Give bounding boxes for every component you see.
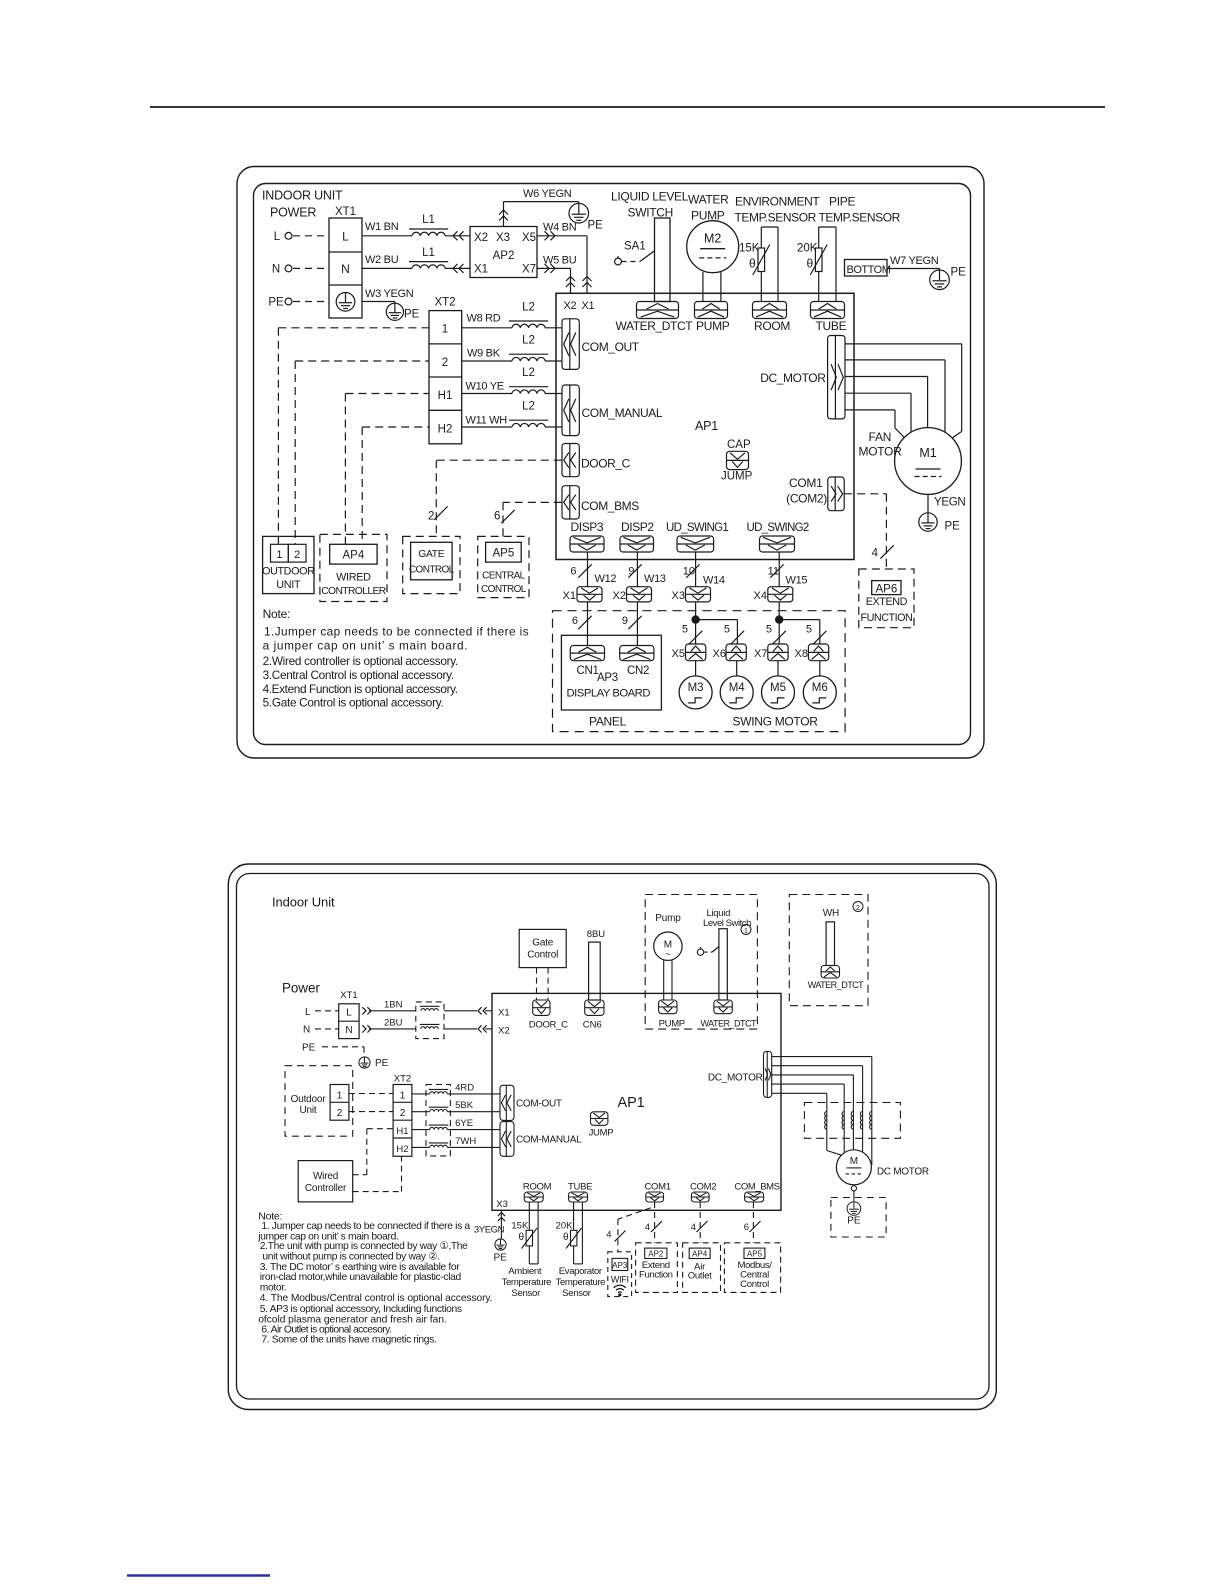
svg-text:PUMP: PUMP: [696, 319, 730, 333]
svg-text:M2: M2: [704, 232, 721, 246]
svg-text:Power: Power: [282, 981, 320, 996]
tick 9 W13: [628, 564, 666, 585]
footer blue line: [127, 1574, 270, 1577]
label DC_MOTOR: [760, 371, 826, 385]
connector X5: [672, 644, 706, 661]
wire M1 to PE: [927, 494, 929, 512]
dashed wire COM_BMS to AP5: [752, 1202, 754, 1243]
outdoor unit box: [262, 536, 315, 593]
wire W1 XT1.L to AP2.X2: [362, 231, 470, 240]
evaporator sensor probe: [574, 1202, 583, 1264]
dc motor wire 3: [772, 1075, 854, 1150]
svg-text:~: ~: [665, 950, 671, 961]
svg-text:DC MOTOR: DC MOTOR: [877, 1167, 929, 1178]
label WATER_DTCT bottom: [701, 1018, 757, 1028]
svg-text:X2: X2: [474, 232, 488, 244]
earth symbol PE near XT1: [386, 303, 419, 320]
svg-text:H2: H2: [396, 1144, 408, 1155]
svg-text:Sensor: Sensor: [511, 1288, 541, 1299]
svg-text:Function: Function: [639, 1269, 673, 1280]
bottom diagram outer border frame: [228, 864, 996, 1410]
tick 5 b: [724, 624, 744, 645]
wire DISP2 to X2: [636, 552, 638, 587]
svg-text:AP3: AP3: [597, 672, 618, 684]
svg-text:WATER_DTCT: WATER_DTCT: [616, 319, 694, 333]
label Liquid Level Switch: [703, 908, 751, 929]
label WH: [823, 908, 839, 919]
dashed wire outdoor 1 to XT2.1: [349, 1093, 393, 1095]
svg-text:Ambient: Ambient: [508, 1266, 542, 1277]
page top rule: [150, 106, 1105, 108]
dashed wire COM1 to AP2: [654, 1202, 656, 1243]
circled 1: [741, 925, 751, 935]
connector WATER_DTCT bottom: [714, 1000, 732, 1014]
svg-text:W8 RD: W8 RD: [467, 313, 501, 325]
svg-text:1: 1: [400, 1090, 406, 1101]
svg-text:W4 BN: W4 BN: [543, 222, 577, 234]
label Power: [282, 981, 320, 996]
svg-text:M: M: [850, 1156, 858, 1167]
svg-text:OUTDOOR: OUTDOOR: [262, 566, 315, 578]
wire branch to X8: [779, 620, 820, 644]
svg-text:W6 YEGN: W6 YEGN: [523, 188, 572, 200]
terminal block XT1: [329, 206, 362, 318]
thermistor 15K: [739, 243, 770, 276]
wire W7 BOTTOM to PE: [887, 269, 940, 271]
svg-text:WH: WH: [823, 908, 839, 919]
svg-text:COM_BMS: COM_BMS: [734, 1181, 779, 1192]
label W2 BU: [365, 254, 399, 266]
panel display board box: [561, 635, 661, 710]
room sensor probe: [761, 227, 778, 302]
svg-text:SWING MOTOR: SWING MOTOR: [733, 715, 819, 729]
svg-text:Controller: Controller: [305, 1183, 347, 1194]
wire W4 AP2.X5 to AP1.X1: [537, 231, 592, 293]
terminal block XT2: [429, 297, 462, 444]
dc motor wire 2: [772, 1066, 863, 1152]
svg-text:2.The unit with pump is connec: 2.The unit with pump is connected by way…: [260, 1241, 468, 1252]
title Indoor Unit: [272, 895, 335, 910]
inductor L1 (line L): [409, 214, 448, 236]
tick 9 panel: [622, 615, 642, 629]
wire 7WH: [412, 1146, 500, 1148]
earth symbol PE fan motor: [919, 513, 960, 533]
wires pump to PUMP connector: [664, 960, 672, 1001]
labels CN1 AP3 CN2: [577, 665, 650, 684]
svg-text:X8: X8: [795, 648, 808, 660]
label 3YEGN: [474, 1225, 505, 1236]
svg-text:a jumper cap on unit’ s main b: a jumper cap on unit’ s main board.: [263, 638, 469, 652]
svg-text:PIPE: PIPE: [829, 195, 855, 209]
svg-text:H2: H2: [438, 424, 453, 436]
svg-text:X2: X2: [613, 590, 626, 602]
liquid level switch SA1 symbol: [615, 218, 670, 302]
svg-text:5.Gate Control is optional acc: 5.Gate Control is optional accessory.: [263, 696, 444, 710]
svg-text:1: 1: [442, 324, 448, 336]
wire X8 to M6: [819, 661, 821, 676]
svg-text:θ: θ: [749, 257, 756, 271]
pump motor M: [654, 932, 682, 961]
dc motor M bottom: [836, 1150, 871, 1185]
svg-text:Temperature: Temperature: [502, 1277, 552, 1288]
svg-text:JUMP: JUMP: [589, 1128, 614, 1139]
wire UD_SWING1 to X3: [695, 552, 697, 587]
svg-text:PE: PE: [494, 1252, 508, 1263]
svg-text:H1: H1: [438, 390, 453, 402]
connector X2: [613, 587, 652, 602]
svg-text:TEMP.SENSOR: TEMP.SENSOR: [735, 211, 817, 225]
label 8BU: [587, 929, 606, 940]
svg-text:AP6: AP6: [876, 583, 898, 595]
svg-text:5: 5: [682, 624, 688, 636]
svg-text:θ: θ: [519, 1232, 525, 1243]
node PE bottom: [302, 1043, 316, 1054]
label SWING MOTOR: [733, 715, 819, 729]
main board AP1 outline: [556, 293, 854, 559]
dashed wire XT2.2 to outdoor unit 2: [295, 361, 429, 544]
svg-text:Evaporator: Evaporator: [559, 1266, 603, 1277]
svg-text:FUNCTION: FUNCTION: [861, 612, 913, 624]
tick 4 AP3: [606, 1229, 625, 1241]
svg-text:5BK: 5BK: [455, 1100, 474, 1111]
svg-text:JUMP: JUMP: [721, 471, 753, 483]
wire 4RD: [412, 1093, 500, 1095]
svg-text:5: 5: [806, 624, 812, 636]
label COM_OUT: [582, 340, 640, 354]
svg-text:3.Central Control is optional: 3.Central Control is optional accessory.: [263, 668, 454, 682]
svg-text:W3 YEGN: W3 YEGN: [365, 288, 414, 300]
svg-text:XT1: XT1: [340, 990, 357, 1001]
earth symbol PE bottom left: [359, 1057, 389, 1069]
svg-text:2: 2: [856, 905, 860, 912]
central control AP5: [478, 536, 529, 597]
svg-text:4. The Modbus/Central control: 4. The Modbus/Central control is optiona…: [260, 1293, 493, 1304]
svg-text:1: 1: [276, 549, 282, 561]
connector WATER_DTCT standalone: [821, 966, 839, 979]
pins X1 X2 bottom: [498, 1008, 510, 1037]
svg-text:COM-MANUAL: COM-MANUAL: [516, 1135, 582, 1146]
svg-text:Note:: Note:: [263, 607, 291, 621]
svg-text:X2: X2: [498, 1026, 510, 1037]
node PE with dashed lead: [268, 297, 329, 309]
swing motor M3: [679, 676, 712, 709]
svg-text:X1: X1: [498, 1008, 510, 1019]
extend function AP2: [636, 1243, 678, 1293]
connector COM_BMS: [562, 486, 579, 519]
circled 2: [853, 902, 863, 912]
svg-text:PUMP: PUMP: [691, 209, 725, 223]
svg-text:SA1: SA1: [624, 241, 646, 253]
svg-text:AP4: AP4: [343, 550, 365, 562]
wire X1 to CN1: [587, 602, 589, 646]
dashed wire COM2 to AP4: [699, 1202, 701, 1243]
dc motor wire 5: [772, 1093, 842, 1155]
svg-text:Gate: Gate: [532, 937, 554, 948]
ambient sensor probe: [529, 1202, 538, 1264]
svg-text:COM_MANUAL: COM_MANUAL: [582, 406, 663, 420]
label W8 RD: [467, 313, 501, 325]
top diagram outer border frame: [237, 167, 984, 759]
svg-text:N: N: [341, 262, 350, 276]
dashed wire COM1 to AP3: [618, 1208, 651, 1252]
connector DOOR_C: [562, 444, 579, 477]
svg-text:1: 1: [337, 1090, 343, 1101]
svg-text:PANEL: PANEL: [589, 715, 627, 729]
coil motor wire 2: [842, 1112, 844, 1130]
PE dashed box bottom: [831, 1198, 886, 1238]
svg-text:4: 4: [645, 1222, 650, 1233]
wired controller box bottom: [298, 1161, 353, 1202]
svg-text:PE: PE: [588, 220, 604, 232]
dashed wires gate control to DOOR_C: [537, 968, 549, 1000]
svg-text:TEMP.SENSOR: TEMP.SENSOR: [819, 211, 901, 225]
label DISP3: [571, 520, 604, 534]
svg-text:CAP: CAP: [727, 439, 751, 451]
label PUMP bottom: [659, 1018, 685, 1029]
liquid level switch symbol bottom: [697, 929, 727, 1000]
wire X3 to X5 with junction: [692, 602, 699, 644]
svg-text:UD_SWING1: UD_SWING1: [666, 522, 728, 534]
svg-text:7. Some of the units have magn: 7. Some of the units have magnetic rings…: [261, 1335, 436, 1346]
connector COM_MANUAL: [562, 385, 579, 436]
label 4RD: [455, 1082, 474, 1093]
dashed wire XT2.H1 to wired controller: [345, 394, 429, 545]
dashed wire PE to earth: [322, 1047, 364, 1057]
tick 5 d: [806, 624, 827, 645]
pump dashed box: [645, 895, 757, 1030]
chevrons XT1 out: [362, 1007, 371, 1032]
magnetic ring box 1: [416, 1002, 444, 1039]
label 20K theta: [556, 1221, 574, 1244]
coil motor wire 1: [825, 1112, 827, 1130]
svg-text:COM-OUT: COM-OUT: [516, 1098, 562, 1109]
inductor L1 (line N): [409, 247, 448, 268]
inductor L2 row 1: [509, 301, 548, 328]
svg-text:6: 6: [494, 511, 500, 523]
svg-text:6: 6: [570, 566, 576, 578]
label WATER_DTCT: [616, 319, 694, 333]
svg-text:COM_BMS: COM_BMS: [581, 499, 639, 513]
wire 5BK: [412, 1111, 500, 1113]
svg-text:W13: W13: [644, 573, 666, 585]
wire W6 AP2.X3 to PE: [499, 202, 579, 227]
svg-text:θ: θ: [563, 1232, 569, 1243]
connector COM_BMS bottom: [734, 1181, 779, 1202]
terminal block XT2 bottom: [393, 1073, 412, 1156]
svg-text:L2: L2: [522, 335, 535, 347]
svg-text:AP2: AP2: [493, 250, 515, 262]
coil motor wire 3: [851, 1112, 853, 1130]
svg-text:W1 BN: W1 BN: [365, 221, 399, 233]
connector X6: [713, 644, 747, 661]
svg-text:Indoor Unit: Indoor Unit: [272, 895, 335, 910]
svg-text:5: 5: [766, 624, 772, 636]
tick 6 panel: [572, 615, 592, 629]
svg-text:4: 4: [691, 1222, 696, 1233]
svg-text:1: 1: [744, 928, 748, 935]
dashed wire controller to XT2.H2: [353, 1156, 402, 1191]
svg-text:YEGN: YEGN: [934, 497, 965, 509]
wire W9 XT2 row 2: [462, 360, 562, 362]
svg-text:H1: H1: [396, 1126, 408, 1137]
svg-text:2: 2: [442, 357, 448, 369]
connector X1: [563, 587, 602, 602]
svg-text:N: N: [272, 264, 280, 276]
label Ambient Temperature Sensor: [502, 1266, 552, 1299]
fan wire 2: [845, 360, 945, 432]
label POWER: [270, 206, 316, 220]
cable WH: [826, 922, 834, 966]
svg-text:L2: L2: [522, 401, 535, 413]
svg-text:CONTROL: CONTROL: [481, 584, 527, 595]
thermistor evaporator: [566, 1228, 582, 1249]
svg-text:Temperature: Temperature: [556, 1277, 606, 1288]
label DOOR_C bottom: [529, 1020, 568, 1031]
main board AP1 bottom outline: [492, 993, 781, 1210]
label WATER_DTCT standalone: [808, 980, 864, 990]
note text block bottom: [257, 1211, 492, 1346]
connector X4: [754, 587, 793, 602]
connector DOOR_C bottom: [533, 1000, 550, 1015]
svg-text:WIFI: WIFI: [611, 1274, 629, 1284]
svg-text:7WH: 7WH: [455, 1136, 476, 1147]
svg-text:WATER: WATER: [688, 193, 729, 207]
svg-text:W7 YEGN: W7 YEGN: [890, 255, 939, 267]
earth symbol PE top: [569, 203, 603, 231]
label W9 BK: [467, 348, 501, 360]
coil 4RD: [429, 1089, 449, 1094]
svg-text:CONTROLLER: CONTROLLER: [321, 586, 386, 597]
label WATER PUMP: [688, 193, 729, 223]
wire X7 to M5: [777, 661, 779, 676]
label DISPLAY BOARD: [567, 688, 651, 700]
label 5BK: [455, 1100, 474, 1111]
svg-text:ENVIRONMENT: ENVIRONMENT: [735, 195, 820, 209]
terminal block XT1 bottom: [339, 990, 359, 1039]
svg-text:DOOR_C: DOOR_C: [581, 457, 631, 471]
svg-text:EXTEND: EXTEND: [866, 596, 908, 608]
svg-text:PE: PE: [302, 1043, 316, 1054]
inductor L2 row 2: [509, 335, 548, 362]
wire X3 to PE: [498, 1210, 505, 1239]
label Pump: [655, 913, 681, 924]
svg-text:2: 2: [400, 1108, 406, 1119]
svg-text:FAN: FAN: [869, 430, 892, 444]
connector ROOM bottom: [523, 1181, 552, 1202]
label COM-OUT: [516, 1098, 562, 1109]
svg-text:M6: M6: [812, 682, 828, 694]
connector WATER_DTCT: [637, 302, 679, 319]
svg-text:INDOOR UNIT: INDOOR UNIT: [262, 189, 343, 203]
node N bottom: [303, 1025, 339, 1036]
labels TEMP.SENSOR: [735, 211, 901, 225]
wire X4 to X7 with junction: [776, 602, 783, 644]
connector COM2 bottom: [690, 1181, 716, 1202]
svg-text:X5: X5: [522, 232, 536, 244]
svg-text:5. AP3 is optional accessory,: 5. AP3 is optional accessory, Including …: [260, 1304, 462, 1315]
connector UD_SWING2: [760, 536, 795, 552]
connector CN1: [570, 646, 604, 661]
thermistor 20K: [797, 243, 827, 276]
label COM-MANUAL: [516, 1135, 582, 1146]
svg-text:X2: X2: [564, 300, 577, 312]
dashed wire DOOR_C to gate control: [436, 460, 562, 536]
svg-text:AP2: AP2: [648, 1250, 664, 1259]
svg-text:X3: X3: [496, 1199, 508, 1210]
svg-text:ROOM: ROOM: [754, 319, 790, 333]
label ROOM: [754, 319, 790, 333]
label UD_SWING2: [747, 522, 809, 534]
svg-text:X3: X3: [496, 232, 510, 244]
wires M2 to PUMP connector: [703, 271, 721, 302]
svg-text:CENTRAL: CENTRAL: [482, 570, 526, 581]
tick 6 AP5: [744, 1221, 761, 1233]
dashed wire controller to XT2.H1: [353, 1129, 393, 1175]
svg-text:WIRED: WIRED: [336, 571, 371, 583]
label CN6: [583, 1020, 602, 1031]
label FAN MOTOR: [859, 430, 903, 459]
svg-text:X4: X4: [754, 590, 767, 602]
svg-text:L: L: [274, 231, 281, 243]
label W7 YEGN: [890, 255, 939, 267]
svg-text:6YE: 6YE: [455, 1118, 473, 1129]
svg-text:GATE: GATE: [418, 549, 445, 560]
svg-text:WATER_DTCT: WATER_DTCT: [701, 1018, 757, 1028]
svg-text:L: L: [305, 1007, 311, 1018]
wifi module AP3: [608, 1252, 632, 1297]
svg-text:W2 BU: W2 BU: [365, 254, 399, 266]
svg-text:PE: PE: [847, 1216, 861, 1227]
title INDOOR UNIT: [262, 189, 343, 203]
svg-text:M3: M3: [688, 682, 704, 694]
connector PUMP: [695, 302, 728, 319]
wire branch to X6: [696, 620, 738, 644]
labels 1BN 2BU: [384, 1000, 403, 1029]
tick 2 wires: [428, 506, 448, 522]
svg-text:DC_MOTOR: DC_MOTOR: [708, 1073, 763, 1084]
label DOOR_C: [581, 457, 631, 471]
dashed wire COM1 to AP6: [844, 494, 886, 569]
wire X2 to CN2: [636, 602, 638, 646]
svg-text:Outlet: Outlet: [688, 1271, 712, 1282]
fan wire 1: [845, 344, 962, 438]
node L with dashed lead: [274, 231, 329, 243]
tick 4 AP2: [645, 1221, 662, 1233]
connector DISP2: [620, 536, 654, 552]
connector COM_OUT: [562, 319, 579, 370]
tick 6 W12: [570, 564, 616, 585]
wire W5 AP2.X7 to AP1.X2: [537, 264, 575, 293]
coil 6YE: [429, 1125, 449, 1130]
note text block: [263, 607, 529, 710]
node N with dashed lead: [272, 264, 329, 276]
svg-text:Outdoor: Outdoor: [291, 1094, 327, 1105]
label COM1 COM2: [786, 476, 827, 506]
svg-text:DOOR_C: DOOR_C: [529, 1020, 568, 1031]
svg-text:W12: W12: [595, 573, 617, 585]
connector CN6: [585, 1000, 604, 1015]
wire 1BN: [369, 1010, 477, 1012]
connector X3: [672, 587, 711, 602]
air outlet AP4: [683, 1243, 721, 1293]
svg-text:8BU: 8BU: [587, 929, 606, 940]
svg-text:PE: PE: [404, 309, 420, 321]
WH dashed box: [789, 895, 868, 1006]
svg-text:2.Wired controller is optional: 2.Wired controller is optional accessory…: [263, 654, 458, 668]
pin X3 bottom: [496, 1199, 508, 1210]
pipe sensor probe: [819, 227, 836, 302]
svg-text:W11 WH: W11 WH: [466, 415, 508, 427]
